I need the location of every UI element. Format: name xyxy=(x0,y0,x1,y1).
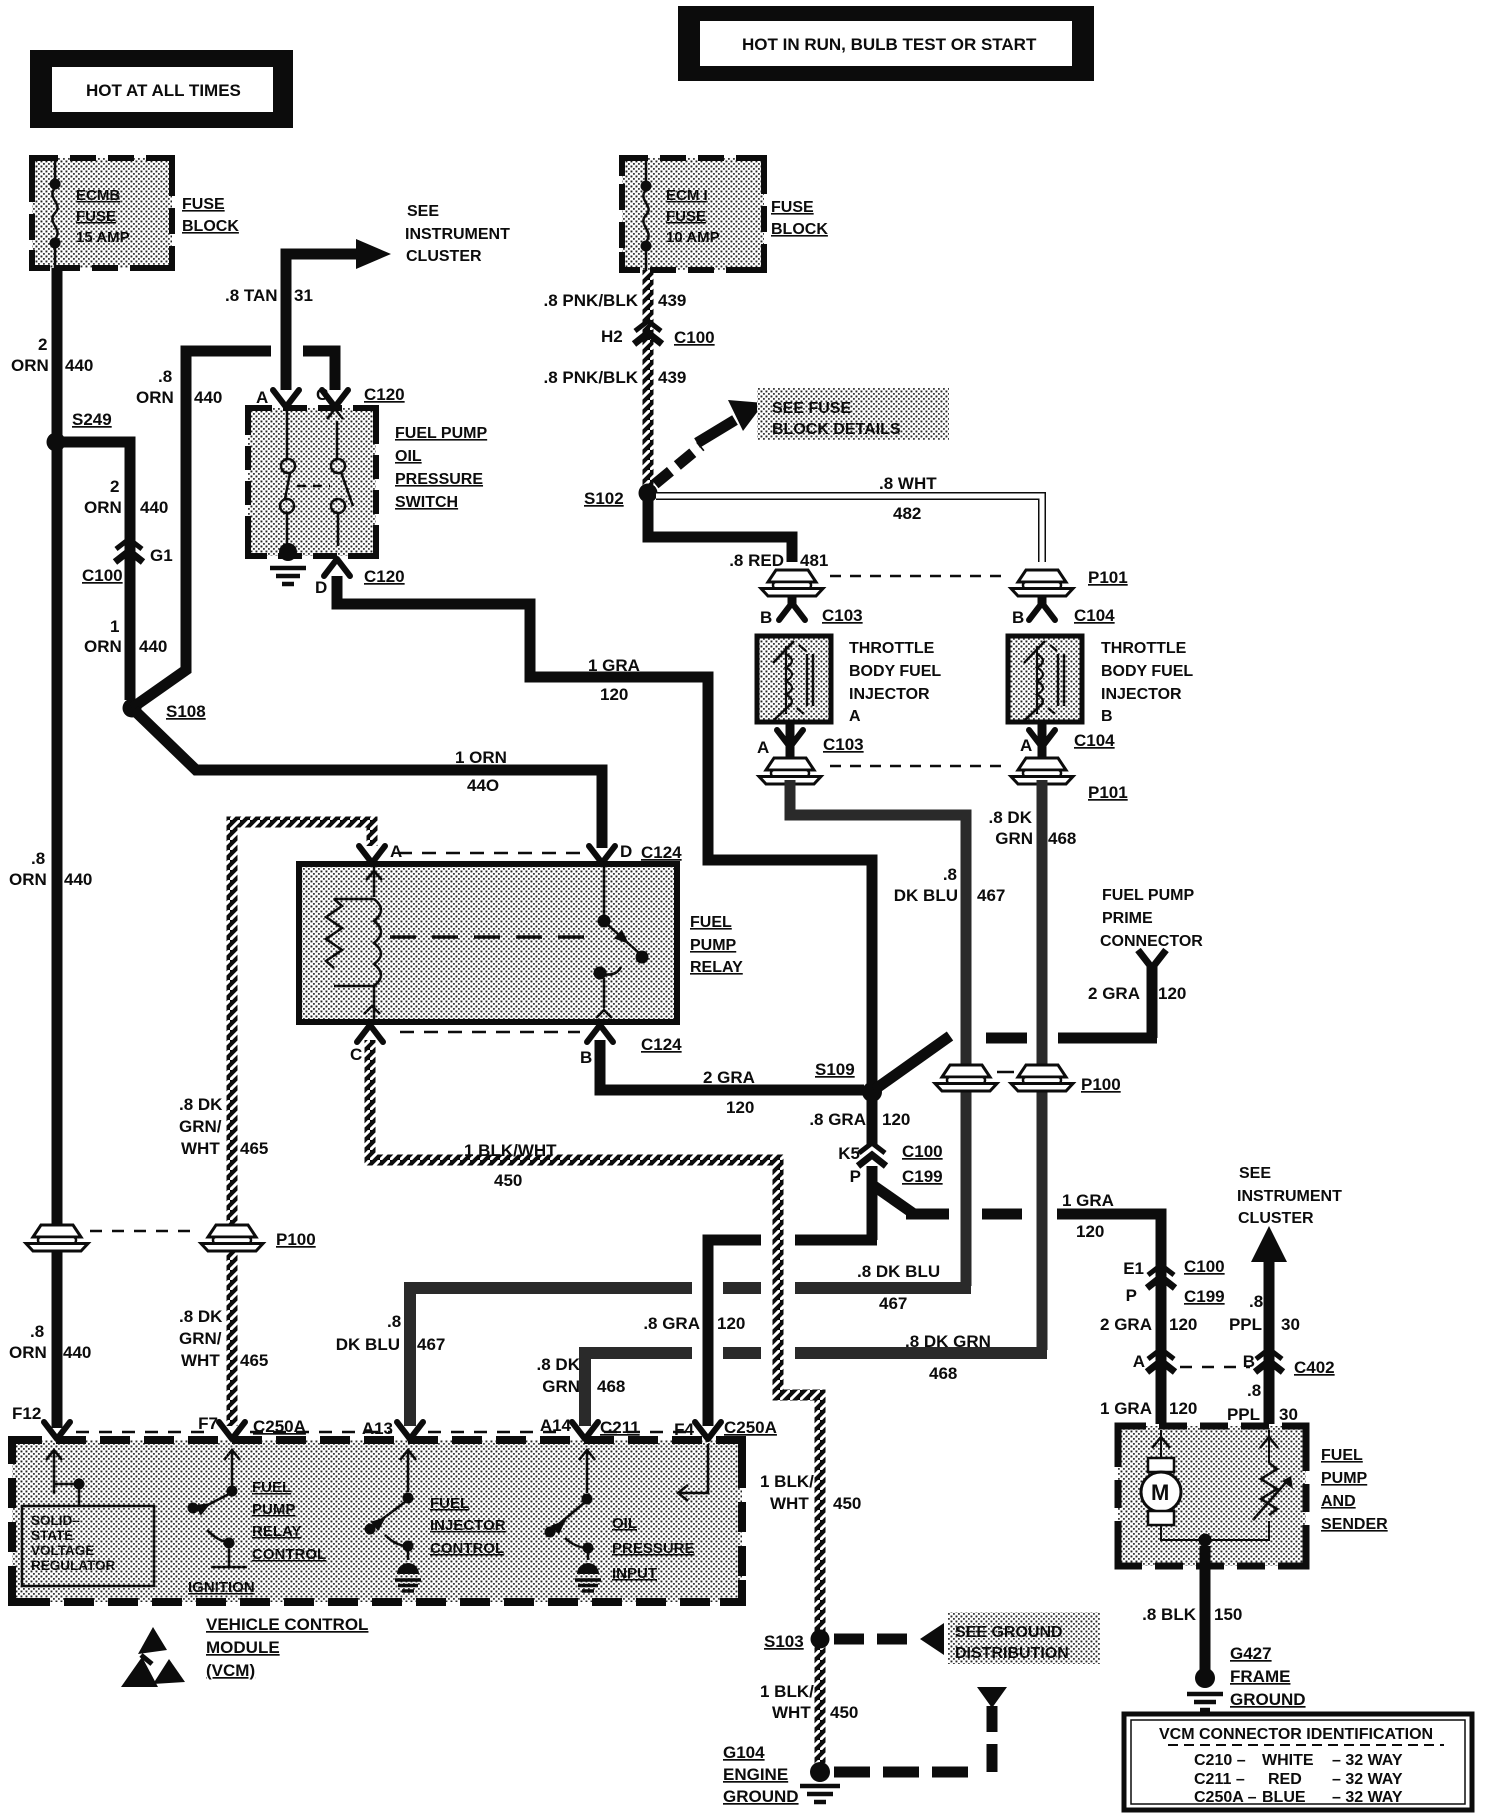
svg-text:.8 DK: .8 DK xyxy=(179,1095,223,1114)
svg-text:PUMP: PUMP xyxy=(252,1501,295,1518)
connector K5/P C100 C199 xyxy=(838,1142,942,1186)
svg-text:31: 31 xyxy=(294,286,313,305)
svg-text:INJECTOR: INJECTOR xyxy=(849,686,930,703)
label .8 PPL 30 (upper) xyxy=(1229,1292,1300,1334)
label .8 GRA 120 (below S109) xyxy=(809,1110,910,1129)
svg-text:F4: F4 xyxy=(674,1420,694,1439)
svg-text:MODULE: MODULE xyxy=(206,1638,280,1657)
label .8 DK GRN 468 (row) xyxy=(905,1332,991,1383)
svg-text:ECMB: ECMB xyxy=(76,187,120,204)
svg-text:SEE: SEE xyxy=(1239,1165,1271,1182)
svg-text:(VCM): (VCM) xyxy=(206,1661,255,1680)
svg-text:1 GRA: 1 GRA xyxy=(1100,1399,1152,1418)
ground below switch xyxy=(270,568,306,584)
VCM F7 ignition switch xyxy=(188,1450,255,1596)
svg-text:SEE: SEE xyxy=(407,203,439,220)
svg-text:B: B xyxy=(760,608,772,627)
svg-text:VOLTAGE: VOLTAGE xyxy=(31,1543,94,1558)
svg-text:C211: C211 xyxy=(600,1418,640,1437)
svg-text:C402: C402 xyxy=(1294,1358,1335,1377)
svg-text:150: 150 xyxy=(1214,1605,1242,1624)
svg-text:B: B xyxy=(1243,1352,1255,1371)
wire .8 TAN 31 with arrow to instrument cluster xyxy=(225,239,391,390)
wire ORN 440 main left vertical xyxy=(52,268,63,1428)
svg-text:465: 465 xyxy=(240,1139,268,1158)
label 1 GRA 120 (switch out) xyxy=(588,656,640,704)
label FUEL PUMP RELAY CONTROL xyxy=(252,1479,326,1563)
svg-text:440: 440 xyxy=(63,1343,91,1362)
connector G1 C100 xyxy=(82,539,173,585)
svg-text:.8: .8 xyxy=(1247,1381,1261,1400)
svg-text:.8 GRA: .8 GRA xyxy=(643,1314,700,1333)
svg-text:VCM CONNECTOR IDENTIFICATION: VCM CONNECTOR IDENTIFICATION xyxy=(1159,1726,1433,1743)
wire 2 GRA 120 relay B to S109 xyxy=(600,1040,864,1117)
label .8 DK BLU 467 (row) xyxy=(857,1262,940,1313)
wire 1 GRA 120 P to E1 xyxy=(874,1186,1161,1264)
VCM A14 oil pressure switch input xyxy=(545,1450,596,1560)
svg-text:INJECTOR: INJECTOR xyxy=(430,1517,506,1534)
grommet C103 (B side) xyxy=(761,570,823,596)
wire .8 WHT 482 thin xyxy=(656,474,1042,562)
svg-text:WHT: WHT xyxy=(181,1351,220,1370)
svg-text:439: 439 xyxy=(658,368,686,387)
pin C C120 xyxy=(316,385,405,407)
svg-text:S109: S109 xyxy=(815,1060,855,1079)
fuse block ECM I (dashed stippled box) xyxy=(622,158,764,270)
svg-text:A13: A13 xyxy=(362,1419,393,1438)
svg-text:468: 468 xyxy=(929,1364,957,1383)
label 2 GRA 120 xyxy=(1100,1315,1197,1334)
grommet P101 (B side) xyxy=(1011,568,1128,596)
label SEE FUSE BLOCK DETAILS xyxy=(757,388,949,440)
svg-text:FUSE: FUSE xyxy=(666,208,706,225)
svg-text:450: 450 xyxy=(830,1703,858,1722)
svg-text:DISTRIBUTION: DISTRIBUTION xyxy=(955,1645,1069,1662)
svg-text:440: 440 xyxy=(194,388,222,407)
fuel pump prime connector xyxy=(1100,887,1203,968)
svg-text:B: B xyxy=(580,1048,592,1067)
node in pump xyxy=(1199,1534,1212,1547)
throttle body fuel injector A box xyxy=(757,636,831,722)
ground (A13) xyxy=(395,1563,421,1591)
svg-text:BLUE: BLUE xyxy=(1262,1789,1306,1806)
svg-text:SWITCH: SWITCH xyxy=(395,494,458,511)
svg-text:RELAY: RELAY xyxy=(690,959,743,976)
svg-text:.8: .8 xyxy=(1249,1292,1263,1311)
label SEE GROUND DISTRIBUTION xyxy=(948,1612,1100,1664)
svg-text:INPUT: INPUT xyxy=(612,1565,657,1582)
svg-text:WHT: WHT xyxy=(770,1494,809,1513)
label FUEL PUMP AND SENDER xyxy=(1321,1447,1388,1533)
svg-text:A: A xyxy=(1133,1352,1145,1371)
svg-text:465: 465 xyxy=(240,1351,268,1370)
label FUEL PUMP RELAY xyxy=(690,914,743,976)
svg-text:– 32 WAY: – 32 WAY xyxy=(1332,1752,1403,1769)
node S103 xyxy=(764,1630,830,1652)
label .8 ORN 440 (upper) xyxy=(136,367,222,407)
wire .8 GRA to K5 xyxy=(867,1098,878,1144)
svg-text:ECM I: ECM I xyxy=(666,187,708,204)
svg-text:CONTROL: CONTROL xyxy=(430,1540,504,1557)
dashed arrow wire to fuse block details xyxy=(655,400,764,484)
svg-text:BLOCK: BLOCK xyxy=(771,221,828,238)
svg-text:BODY FUEL: BODY FUEL xyxy=(849,663,941,680)
label .8 DK GRN/WHT 465 (above P100) xyxy=(179,1095,268,1158)
pin F7 C250A xyxy=(198,1414,306,1439)
connector A C402 xyxy=(1133,1349,1175,1372)
label .8 DK BLU 467 (corner) xyxy=(894,865,1006,905)
svg-text:120: 120 xyxy=(600,685,628,704)
svg-text:467: 467 xyxy=(977,886,1005,905)
svg-text:HOT AT ALL TIMES: HOT AT ALL TIMES xyxy=(86,81,241,100)
pin A14 C211 xyxy=(540,1416,640,1439)
svg-text:120: 120 xyxy=(1169,1315,1197,1334)
svg-text:P100: P100 xyxy=(276,1230,316,1249)
svg-text:10 AMP: 10 AMP xyxy=(666,229,720,246)
svg-text:P101: P101 xyxy=(1088,783,1128,802)
header box HOT IN RUN, BULB TEST OR START xyxy=(678,6,1094,81)
label .8 PNK/BLK 439 (upper) xyxy=(544,291,687,310)
svg-text:C103: C103 xyxy=(823,735,864,754)
svg-text:A: A xyxy=(390,842,402,861)
svg-text:.8: .8 xyxy=(943,865,957,884)
svg-text:30: 30 xyxy=(1281,1315,1300,1334)
svg-text:450: 450 xyxy=(833,1494,861,1513)
svg-text:120: 120 xyxy=(1076,1222,1104,1241)
svg-text:.8 WHT: .8 WHT xyxy=(879,474,937,493)
label FUSE BLOCK (right) xyxy=(771,199,828,238)
svg-text:SEE GROUND: SEE GROUND xyxy=(955,1624,1063,1641)
svg-text:C104: C104 xyxy=(1074,731,1115,750)
wire .8 BLK 150 xyxy=(1142,1546,1242,1670)
label 1 ORN 440 xyxy=(84,617,167,656)
svg-text:2 GRA: 2 GRA xyxy=(1100,1315,1152,1334)
svg-text:2: 2 xyxy=(38,335,47,354)
svg-text:C103: C103 xyxy=(822,606,863,625)
relay coil and resistor xyxy=(326,866,382,1020)
wire 2 GRA 120 prime connector to S109 xyxy=(874,966,1186,1090)
wire .8 DK BLU 467 horizontal run to A13 xyxy=(410,1288,971,1426)
svg-text:2 GRA: 2 GRA xyxy=(1088,984,1140,1003)
svg-text:M: M xyxy=(1151,1480,1169,1505)
svg-text:2 GRA: 2 GRA xyxy=(703,1068,755,1087)
grommet P100 (DK BLU) xyxy=(935,1065,997,1091)
label FUSE BLOCK (left) xyxy=(182,196,239,235)
svg-text:.8 DK: .8 DK xyxy=(989,808,1033,827)
pin F12 xyxy=(12,1404,70,1439)
svg-text:VEHICLE CONTROL: VEHICLE CONTROL xyxy=(206,1615,368,1634)
svg-text:D: D xyxy=(315,578,327,597)
svg-text:THROTTLE: THROTTLE xyxy=(1101,640,1187,657)
svg-text:C120: C120 xyxy=(364,385,405,404)
connector E1/P C100 C199 xyxy=(1123,1257,1224,1306)
svg-text:C250A –: C250A – xyxy=(1194,1789,1257,1806)
svg-text:D: D xyxy=(620,842,632,861)
label 1 BLK/WHT 450 (above S103) xyxy=(760,1472,861,1513)
svg-text:IGNITION: IGNITION xyxy=(188,1579,255,1596)
svg-text:G427: G427 xyxy=(1230,1644,1272,1663)
VCM box xyxy=(12,1440,742,1602)
svg-text:PRESSURE: PRESSURE xyxy=(395,471,483,488)
svg-text:ORN: ORN xyxy=(84,637,122,656)
svg-text:– 32 WAY: – 32 WAY xyxy=(1332,1789,1403,1806)
label THROTTLE BODY FUEL INJECTOR B xyxy=(1101,640,1193,725)
svg-text:PUMP: PUMP xyxy=(1321,1470,1368,1487)
pin A C104 xyxy=(1020,724,1115,760)
pin F4 C250A xyxy=(674,1418,777,1439)
svg-text:FUEL PUMP: FUEL PUMP xyxy=(1102,887,1194,904)
label 2 ORN 440 (upper) xyxy=(11,335,93,375)
node S108 xyxy=(123,699,206,722)
svg-text:C211 –: C211 – xyxy=(1194,1771,1245,1788)
fuel pump oil pressure switch box xyxy=(248,408,376,556)
svg-text:BODY FUEL: BODY FUEL xyxy=(1101,663,1193,680)
VCM F12 internal arrow to regulator xyxy=(46,1450,85,1506)
label OIL PRESSURE INPUT xyxy=(612,1515,695,1582)
svg-text:GROUND: GROUND xyxy=(723,1787,799,1806)
svg-text:OIL: OIL xyxy=(612,1515,637,1532)
svg-text:C124: C124 xyxy=(641,1035,682,1054)
grommet P100 (DK GRN/WHT) xyxy=(201,1225,316,1251)
svg-text:A: A xyxy=(1020,736,1032,755)
svg-text:120: 120 xyxy=(726,1098,754,1117)
svg-text:FUEL: FUEL xyxy=(690,914,732,931)
svg-text:468: 468 xyxy=(1048,829,1076,848)
svg-text:440: 440 xyxy=(139,637,167,656)
fuel pump and sender box xyxy=(1118,1426,1306,1566)
svg-text:ORN: ORN xyxy=(11,356,49,375)
svg-text:A: A xyxy=(256,388,268,407)
ground G427 xyxy=(1187,1644,1306,1710)
pin B C124 xyxy=(580,1025,682,1067)
svg-text:.8 TAN: .8 TAN xyxy=(225,286,278,305)
label FUEL INJECTOR CONTROL xyxy=(430,1495,506,1557)
svg-text:DK BLU: DK BLU xyxy=(894,886,958,905)
svg-text:F12: F12 xyxy=(12,1404,41,1423)
svg-text:CLUSTER: CLUSTER xyxy=(406,248,482,265)
svg-text:GRN/: GRN/ xyxy=(179,1329,222,1348)
relay switch xyxy=(594,866,649,1018)
label VEHICLE CONTROL MODULE (VCM) xyxy=(206,1615,368,1680)
ground (A14) xyxy=(575,1563,601,1591)
svg-text:1 BLK/WHT: 1 BLK/WHT xyxy=(464,1141,557,1160)
svg-text:467: 467 xyxy=(417,1335,445,1354)
svg-text:FUSE: FUSE xyxy=(771,199,814,216)
svg-text:G104: G104 xyxy=(723,1743,765,1762)
svg-text:RELAY: RELAY xyxy=(252,1523,301,1540)
svg-text:RED: RED xyxy=(1268,1771,1302,1788)
svg-text:– 32 WAY: – 32 WAY xyxy=(1332,1771,1403,1788)
label .8 PPL 30 (lower) xyxy=(1227,1381,1298,1424)
svg-text:WHT: WHT xyxy=(772,1703,811,1722)
svg-text:S102: S102 xyxy=(584,489,624,508)
svg-text:HOT IN RUN, BULB TEST OR START: HOT IN RUN, BULB TEST OR START xyxy=(742,35,1037,54)
node G104 engine ground xyxy=(723,1743,840,1806)
svg-text:P: P xyxy=(1126,1286,1137,1305)
svg-text:INSTRUMENT: INSTRUMENT xyxy=(405,226,510,243)
svg-text:FUSE: FUSE xyxy=(76,208,116,225)
svg-text:INSTRUMENT: INSTRUMENT xyxy=(1237,1188,1342,1205)
svg-text:B: B xyxy=(1012,608,1024,627)
svg-text:AND: AND xyxy=(1321,1493,1356,1510)
svg-text:FUEL: FUEL xyxy=(1321,1447,1363,1464)
dashed wire to ground distribution xyxy=(834,1623,944,1655)
connector B C402 xyxy=(1243,1349,1335,1377)
svg-text:FUEL: FUEL xyxy=(430,1495,469,1512)
fuel sender resistor xyxy=(1210,1430,1293,1540)
svg-text:PPL: PPL xyxy=(1227,1405,1260,1424)
grommet P100 (ORN left) xyxy=(26,1225,88,1251)
hatched wire 1 BLK/WHT 450 relay C to S103 xyxy=(370,1040,820,1764)
svg-text:.8 DK BLU: .8 DK BLU xyxy=(857,1262,940,1281)
relay internal dashed line xyxy=(390,935,596,939)
svg-text:1 BLK/: 1 BLK/ xyxy=(760,1682,814,1701)
grommet P100 (DK GRN) xyxy=(997,1065,1121,1094)
connector H2 C100 xyxy=(601,321,715,347)
svg-text:B: B xyxy=(1101,708,1113,725)
pin A C120 xyxy=(256,388,299,407)
wire .8 DK GRN 468 from injector B xyxy=(1037,780,1048,1350)
svg-text:H2: H2 xyxy=(601,327,623,346)
svg-text:CLUSTER: CLUSTER xyxy=(1238,1210,1314,1227)
svg-text:120: 120 xyxy=(1169,1399,1197,1418)
svg-text:C: C xyxy=(350,1045,362,1064)
label .8 DK GRN/WHT 465 (below P100) xyxy=(179,1307,268,1370)
fuel pump relay box xyxy=(299,864,677,1022)
wire E1 column (2 GRA / 1 GRA) xyxy=(1156,1264,1167,1424)
svg-text:C100: C100 xyxy=(82,566,123,585)
svg-text:SOLID–: SOLID– xyxy=(31,1513,80,1528)
svg-text:C100: C100 xyxy=(674,328,715,347)
svg-text:GROUND: GROUND xyxy=(1230,1690,1306,1709)
wire .8 DK BLU 467 from injector A xyxy=(790,780,966,1286)
svg-text:C199: C199 xyxy=(1184,1287,1225,1306)
svg-text:30: 30 xyxy=(1279,1405,1298,1424)
svg-text:.8 DK: .8 DK xyxy=(537,1355,581,1374)
label .8 DK BLU 467 (A13) xyxy=(336,1312,446,1354)
label SEE INSTRUMENT CLUSTER (top) xyxy=(405,203,510,265)
svg-text:OIL: OIL xyxy=(395,448,422,465)
svg-text:439: 439 xyxy=(658,291,686,310)
wire .8 DK GRN 468 horizontal run to A14 xyxy=(585,1353,1047,1426)
solid-state voltage regulator box xyxy=(22,1506,154,1586)
pin B C104 xyxy=(1012,596,1115,627)
label .8 DK GRN 468 (top) xyxy=(989,808,1077,848)
svg-text:.8: .8 xyxy=(30,1322,44,1341)
fuse ECMB FUSE 15 AMP symbol xyxy=(50,161,130,268)
label .8 ORN 440 (lower left) xyxy=(9,1322,91,1362)
svg-text:120: 120 xyxy=(882,1110,910,1129)
grommet P101 (A side right) xyxy=(1011,758,1128,802)
svg-text:CONNECTOR: CONNECTOR xyxy=(1100,933,1203,950)
svg-text:PPL: PPL xyxy=(1229,1315,1262,1334)
svg-text:S103: S103 xyxy=(764,1632,804,1651)
pin D C120 xyxy=(315,559,405,597)
svg-text:A: A xyxy=(757,738,769,757)
VCM F4 bent arrow xyxy=(678,1444,708,1501)
header box HOT AT ALL TIMES xyxy=(30,50,293,128)
svg-text:C124: C124 xyxy=(641,843,682,862)
wire 1 ORN 440 S108 to relay pin D xyxy=(134,710,602,848)
svg-text:THROTTLE: THROTTLE xyxy=(849,640,935,657)
svg-text:440: 440 xyxy=(64,870,92,889)
label SEE INSTRUMENT CLUSTER (right) xyxy=(1237,1165,1342,1227)
svg-text:GRN: GRN xyxy=(995,829,1033,848)
pin A C124 xyxy=(359,842,402,863)
svg-text:120: 120 xyxy=(717,1314,745,1333)
svg-text:.8 RED: .8 RED xyxy=(729,551,784,570)
label .8 DK GRN 468 (A14) xyxy=(537,1355,626,1396)
fuse ECM I FUSE 10 AMP symbol xyxy=(641,161,720,270)
switch contacts right xyxy=(327,409,353,546)
svg-text:1 GRA: 1 GRA xyxy=(1062,1191,1114,1210)
table VCM connector identification xyxy=(1124,1714,1472,1810)
svg-text:S108: S108 xyxy=(166,702,206,721)
svg-text:FUEL: FUEL xyxy=(252,1479,291,1496)
label .8 GRA 120 (F4 wire) xyxy=(643,1314,745,1333)
pin A13 xyxy=(362,1419,423,1439)
svg-text:.8: .8 xyxy=(387,1312,401,1331)
node S109 xyxy=(815,1060,882,1102)
svg-text:C210 –: C210 – xyxy=(1194,1752,1246,1769)
wire .8 PPL 30 with arrow up xyxy=(1251,1226,1287,1424)
svg-text:.8 BLK: .8 BLK xyxy=(1142,1605,1197,1624)
pin B C103 xyxy=(760,596,863,627)
svg-text:F7: F7 xyxy=(198,1414,218,1433)
svg-text:ORN: ORN xyxy=(9,870,47,889)
svg-text:INJECTOR: INJECTOR xyxy=(1101,686,1182,703)
svg-text:1 BLK/: 1 BLK/ xyxy=(760,1472,814,1491)
svg-text:PUMP: PUMP xyxy=(690,937,737,954)
ESD symbol xyxy=(121,1627,185,1687)
wire .8 ORN 440 S108 up to switch pin C xyxy=(132,351,335,708)
pump entry marks xyxy=(1152,1437,1278,1448)
svg-text:450: 450 xyxy=(494,1171,522,1190)
svg-text:WHITE: WHITE xyxy=(1262,1752,1314,1769)
svg-text:ENGINE: ENGINE xyxy=(723,1765,788,1784)
label FUEL PUMP OIL PRESSURE SWITCH xyxy=(395,425,487,511)
svg-text:S249: S249 xyxy=(72,410,112,429)
svg-text:ORN: ORN xyxy=(9,1343,47,1362)
svg-text:DK BLU: DK BLU xyxy=(336,1335,400,1354)
label 1 ORN 44O xyxy=(455,748,507,795)
svg-text:C250A: C250A xyxy=(724,1418,777,1437)
dashed alignment line upper connectors xyxy=(830,575,1002,578)
label 2 ORN 440 (branch) xyxy=(84,477,168,517)
dashed pin row C-B xyxy=(400,1031,580,1034)
svg-text:G1: G1 xyxy=(150,546,173,565)
dashed link inside switch xyxy=(297,485,330,488)
svg-text:P100: P100 xyxy=(1081,1075,1121,1094)
switch contacts left (pressure switch) xyxy=(279,406,297,561)
label 1 GRA 120 (to E1) xyxy=(1062,1191,1114,1241)
svg-text:482: 482 xyxy=(893,504,921,523)
svg-text:440: 440 xyxy=(65,356,93,375)
svg-text:WHT: WHT xyxy=(181,1139,220,1158)
svg-text:.8: .8 xyxy=(31,849,45,868)
wire .8 PNK/BLK 439 hatched xyxy=(643,270,654,488)
svg-text:BLOCK DETAILS: BLOCK DETAILS xyxy=(772,421,901,438)
svg-text:FRAME: FRAME xyxy=(1230,1667,1290,1686)
label 1 GRA 120 xyxy=(1100,1399,1197,1418)
svg-text:C: C xyxy=(316,385,328,404)
svg-text:.8 PNK/BLK: .8 PNK/BLK xyxy=(544,368,639,387)
pin D C124 xyxy=(589,842,682,863)
svg-text:STATE: STATE xyxy=(31,1528,73,1543)
svg-text:P: P xyxy=(850,1167,861,1186)
svg-text:1: 1 xyxy=(110,617,119,636)
svg-text:P101: P101 xyxy=(1088,568,1128,587)
